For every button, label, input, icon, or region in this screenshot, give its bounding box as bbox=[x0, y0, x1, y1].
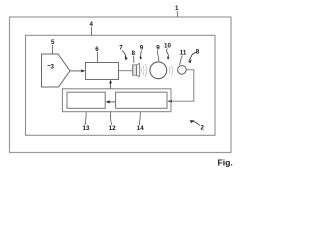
label 4 bbox=[90, 21, 94, 35]
label 1 bbox=[175, 5, 179, 17]
svg-text:6: 6 bbox=[95, 46, 99, 53]
svg-text:3: 3 bbox=[51, 63, 55, 70]
transducer horn bbox=[137, 63, 140, 76]
wire U6 to transducer bbox=[119, 70, 133, 72]
transducer 8: hatched crystal bbox=[132, 65, 136, 75]
label 9 over waves bbox=[140, 45, 144, 60]
label 7 with curved arrow bbox=[119, 45, 128, 61]
svg-text:9: 9 bbox=[140, 45, 144, 52]
arrow 14 to 13 bbox=[105, 100, 115, 103]
control box 12 bbox=[62, 89, 171, 112]
arrow pentagon to U6 bbox=[70, 69, 85, 72]
numeral 3 inside pentagon bbox=[48, 63, 55, 70]
svg-text:12: 12 bbox=[109, 125, 116, 132]
label 13 bbox=[83, 112, 90, 132]
svg-text:Fig.: Fig. bbox=[218, 158, 233, 168]
svg-text:9: 9 bbox=[156, 45, 160, 52]
block 14 bbox=[116, 92, 167, 108]
label 8 over transducer bbox=[132, 50, 136, 63]
label 14 bbox=[137, 112, 144, 132]
label 6 bbox=[95, 46, 99, 62]
sound waves left bbox=[141, 64, 147, 77]
receiver circle 11 bbox=[178, 66, 187, 75]
label 10 bbox=[164, 43, 171, 60]
label 9b bbox=[156, 45, 160, 62]
wire control box up to U6 with arrow bbox=[109, 80, 112, 89]
block U6 bbox=[86, 63, 119, 80]
svg-text:2: 2 bbox=[201, 125, 205, 132]
droplet circle 9 bbox=[150, 62, 167, 79]
label 11 bbox=[180, 50, 187, 66]
label 5 bbox=[51, 39, 55, 54]
inner module box 4 bbox=[26, 35, 216, 135]
wire receiver to control box bbox=[170, 70, 194, 101]
block 13 bbox=[67, 92, 105, 108]
svg-text:13: 13 bbox=[83, 125, 90, 132]
sound waves right bbox=[169, 65, 173, 75]
outer housing box 1 bbox=[10, 17, 232, 153]
label 2 with arrow bbox=[190, 120, 205, 131]
svg-text:14: 14 bbox=[137, 125, 144, 132]
svg-text:11: 11 bbox=[180, 50, 187, 57]
label 8 right with s-curve bbox=[188, 49, 200, 64]
label 12 bbox=[109, 112, 116, 132]
svg-text:10: 10 bbox=[164, 43, 171, 50]
pentagon block 3 bbox=[42, 54, 71, 87]
